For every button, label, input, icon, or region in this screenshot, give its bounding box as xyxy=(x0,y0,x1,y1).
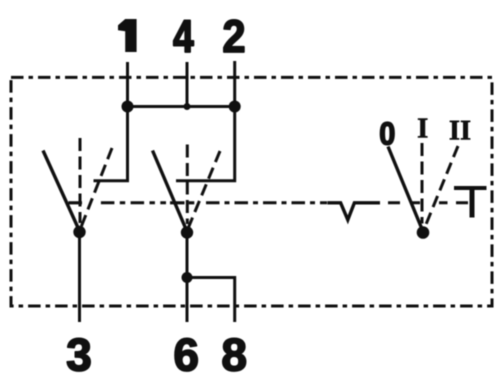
switch pole A solid arm (position 0) xyxy=(43,151,80,232)
linkage V-notch xyxy=(327,203,380,220)
wire terminal 8 branch xyxy=(187,278,235,323)
switch pole A dashed arm position I xyxy=(79,138,82,223)
terminal label 3 xyxy=(67,338,90,371)
node at 1 xyxy=(122,101,134,113)
wire terminal 3 xyxy=(78,232,81,322)
selector dashed arm position II xyxy=(425,146,459,228)
end-stop T bar xyxy=(454,186,487,190)
node at 4 xyxy=(184,103,191,110)
switch pole B dashed arm position II xyxy=(188,151,220,229)
wire terminal 6 xyxy=(186,233,189,323)
linkage dash-dot segment A-B xyxy=(101,201,166,204)
node junction 6-8 xyxy=(182,272,193,283)
node at 2 xyxy=(229,101,241,113)
wire terminal 2 with contact seat xyxy=(176,61,235,181)
terminal label 1 xyxy=(118,19,137,52)
position label I xyxy=(418,119,427,138)
terminal label 8 xyxy=(223,338,246,371)
enclosure dash-dot border xyxy=(11,77,492,306)
switch pole B dashed arm position I xyxy=(186,145,189,225)
terminal label 2 xyxy=(224,20,244,52)
wire bus 1-4-2 xyxy=(128,105,235,108)
node pivot selector xyxy=(417,226,430,239)
node pivot switch pole B xyxy=(181,226,193,238)
end-stop T stem xyxy=(470,188,475,218)
linkage dashes to selector xyxy=(388,201,468,204)
linkage crossbar at pole A xyxy=(69,201,83,204)
selector solid arm position 0 xyxy=(388,147,423,232)
terminal label 4 xyxy=(174,20,194,52)
position label 0 xyxy=(380,122,394,145)
terminal label 6 xyxy=(175,338,197,371)
switch pole A dashed arm position II xyxy=(81,148,113,229)
node pivot switch pole A xyxy=(73,226,85,238)
linkage dash-dot segment B-notch xyxy=(206,201,327,204)
switch pole B solid arm (position 0) xyxy=(153,151,188,232)
wire terminal 1 with contact seat xyxy=(94,62,128,181)
wire terminal 4 xyxy=(186,62,189,107)
position label II xyxy=(450,121,470,140)
linkage crossbar at pole B xyxy=(170,201,194,204)
selector dashed arm position I xyxy=(421,143,424,224)
